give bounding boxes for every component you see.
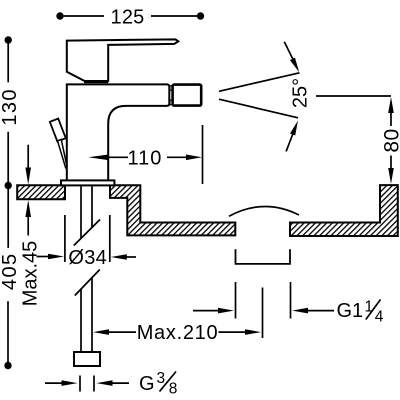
svg-text:110: 110 [128,148,163,170]
svg-text:1: 1 [365,299,374,316]
svg-text:Max.45: Max.45 [19,241,41,307]
svg-text:G: G [139,373,155,395]
svg-text:G1: G1 [337,300,364,322]
svg-text:Max.210: Max.210 [137,322,219,344]
svg-text:4: 4 [375,309,384,326]
svg-text:8: 8 [169,381,178,398]
svg-text:130: 130 [0,88,21,126]
svg-text:3: 3 [157,370,166,387]
svg-text:25°: 25° [290,78,312,108]
svg-text:125: 125 [111,7,145,29]
svg-text:80: 80 [381,128,400,152]
svg-text:Ø34: Ø34 [68,247,107,269]
svg-text:405: 405 [0,253,21,291]
